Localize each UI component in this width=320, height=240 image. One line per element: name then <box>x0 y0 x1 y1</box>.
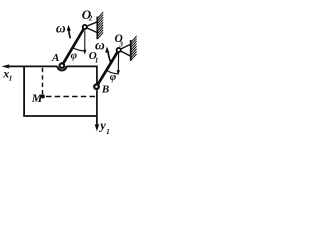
svg-text:A: A <box>51 52 59 64</box>
svg-text:2: 2 <box>88 14 93 22</box>
svg-text:1: 1 <box>9 74 13 82</box>
svg-text:ω: ω <box>56 20 66 35</box>
svg-text:φ: φ <box>110 71 117 83</box>
svg-text:M: M <box>31 91 43 105</box>
svg-text:3: 3 <box>118 40 123 49</box>
svg-text:ω: ω <box>95 37 105 52</box>
svg-text:1: 1 <box>106 127 110 136</box>
svg-text:1: 1 <box>95 56 99 64</box>
svg-text:B: B <box>101 84 109 96</box>
svg-text:φ: φ <box>71 50 78 62</box>
